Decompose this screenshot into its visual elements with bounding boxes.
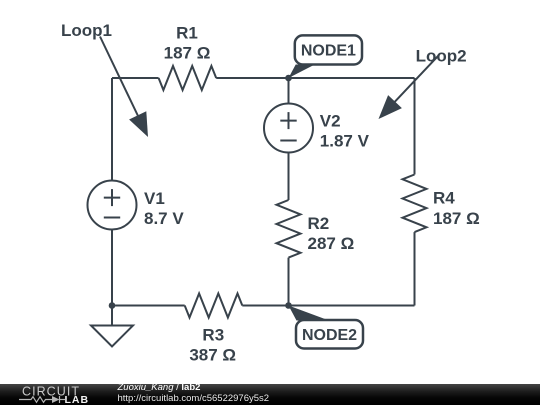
svg-text:R3: R3 bbox=[202, 326, 224, 345]
node B junction dot NODE2 bbox=[285, 302, 292, 309]
svg-text:V1: V1 bbox=[144, 189, 165, 208]
voltage source V2 bbox=[264, 104, 313, 153]
svg-text:NODE1: NODE1 bbox=[301, 43, 356, 60]
wire left vertical lower bbox=[111, 230, 113, 306]
svg-text:387 Ω: 387 Ω bbox=[189, 345, 236, 364]
arrow Loop2 bbox=[379, 55, 439, 119]
svg-text:Zuoxiu_Kang / lab2: Zuoxiu_Kang / lab2 bbox=[117, 382, 201, 393]
wire middle vertical between V2 and R2 bbox=[288, 153, 290, 201]
svg-text:http://circuitlab.com/c5652297: http://circuitlab.com/c56522976y5s2 bbox=[118, 393, 270, 404]
svg-text:Loop1: Loop1 bbox=[61, 21, 112, 40]
svg-text:LAB: LAB bbox=[65, 394, 90, 405]
flag NODE2 bbox=[289, 306, 364, 349]
voltage source V1 bbox=[88, 181, 137, 230]
wire right vertical lower bbox=[414, 232, 416, 305]
flag NODE1 bbox=[289, 35, 363, 78]
svg-text:187 Ω: 187 Ω bbox=[164, 43, 211, 62]
svg-text:R1: R1 bbox=[176, 24, 198, 43]
resistor R3 bbox=[185, 294, 243, 318]
svg-text:Loop2: Loop2 bbox=[416, 47, 467, 66]
resistor R4 bbox=[403, 175, 427, 233]
logo waveform resistor and diode bbox=[19, 396, 65, 403]
svg-text:8.7 V: 8.7 V bbox=[144, 209, 184, 228]
wire bottom-left horizontal segment bbox=[112, 305, 185, 307]
wire left vertical upper bbox=[111, 78, 113, 181]
wire middle vertical below R2 bbox=[288, 258, 290, 306]
svg-text:R4: R4 bbox=[433, 189, 455, 208]
resistor R1 bbox=[159, 66, 217, 90]
resistor R2 bbox=[277, 200, 301, 258]
wire top-left horizontal segment bbox=[112, 77, 159, 79]
footer bar bbox=[0, 384, 540, 405]
svg-text:1.87 V: 1.87 V bbox=[320, 131, 370, 150]
ground bbox=[91, 306, 133, 347]
node C junction dot ground bbox=[109, 302, 116, 309]
svg-text:187 Ω: 187 Ω bbox=[433, 209, 480, 228]
svg-text:V2: V2 bbox=[320, 112, 341, 131]
wire bottom horizontal to right corner bbox=[242, 305, 414, 307]
wire top horizontal to right corner bbox=[216, 77, 414, 79]
svg-text:NODE2: NODE2 bbox=[302, 327, 357, 344]
node A junction dot NODE1 bbox=[285, 75, 292, 82]
wire right vertical upper bbox=[414, 78, 416, 175]
wire middle vertical above V2 bbox=[288, 78, 290, 104]
arrow Loop1 bbox=[100, 37, 148, 138]
svg-text:287 Ω: 287 Ω bbox=[308, 234, 355, 253]
svg-text:R2: R2 bbox=[308, 214, 330, 233]
logo CircuitLab wordmark bbox=[22, 384, 89, 405]
